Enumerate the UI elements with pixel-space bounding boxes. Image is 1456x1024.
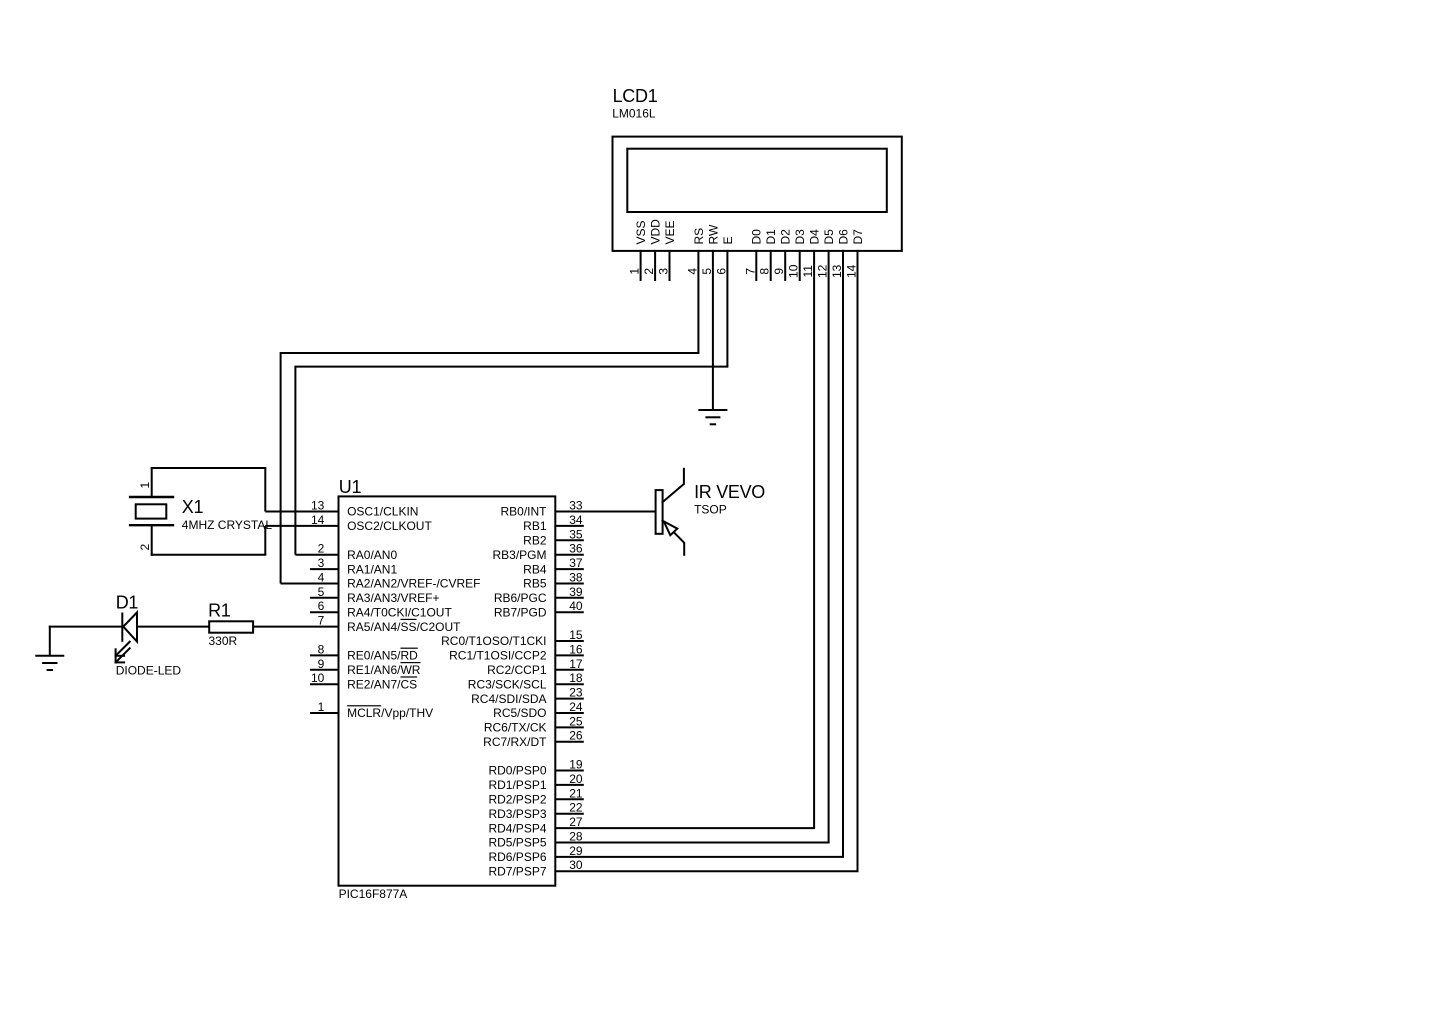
- svg-text:RA1/AN1: RA1/AN1: [347, 562, 397, 576]
- svg-text:25: 25: [569, 714, 583, 728]
- svg-text:29: 29: [569, 844, 583, 858]
- crystal X1 body: [136, 504, 167, 518]
- svg-text:RD7/PSP7: RD7/PSP7: [488, 864, 546, 878]
- transistor collector lead: [683, 468, 685, 485]
- wire RS into U1 pin 4 RA2: [281, 583, 339, 585]
- svg-text:8: 8: [758, 268, 772, 275]
- U1 pin 24 stub: [555, 712, 584, 714]
- D1 LED arrow 1: [115, 641, 131, 657]
- U1 pin 5 stub: [310, 597, 339, 599]
- svg-text:RB5: RB5: [523, 577, 547, 591]
- svg-text:RE1/AN6/WR: RE1/AN6/WR: [347, 663, 421, 677]
- wire LCD D4 pin 11 vertical down: [813, 250, 815, 828]
- svg-text:R1: R1: [208, 600, 231, 620]
- svg-text:OSC2/CLKOUT: OSC2/CLKOUT: [347, 519, 432, 533]
- svg-text:D4: D4: [808, 229, 822, 245]
- LCD1 pin 8 stub: [770, 250, 772, 281]
- svg-text:RE2/AN7/CS: RE2/AN7/CS: [347, 677, 417, 691]
- U1 pin 35 stub: [555, 539, 584, 541]
- resistor R1 body: [209, 621, 253, 632]
- svg-text:4: 4: [685, 268, 699, 275]
- svg-text:18: 18: [569, 671, 583, 685]
- svg-text:11: 11: [801, 265, 815, 278]
- svg-text:17: 17: [569, 657, 583, 671]
- wire LCD D7 pin 14 vertical down: [857, 250, 859, 871]
- svg-text:RB2: RB2: [523, 534, 547, 548]
- wire LCD D5 pin 12 vertical down: [828, 250, 830, 843]
- U1 pin 18 stub: [555, 683, 584, 685]
- svg-text:X1: X1: [182, 497, 204, 517]
- svg-text:RD2/PSP2: RD2/PSP2: [488, 793, 546, 807]
- ground symbol below LCD RW: [698, 410, 727, 424]
- wire ground to D1 cathode: [49, 626, 123, 628]
- wire X1 top horizontal: [151, 467, 267, 469]
- svg-text:19: 19: [569, 758, 583, 772]
- svg-text:RB1: RB1: [523, 519, 547, 533]
- wire X1 bottom horizontal: [151, 554, 267, 556]
- svg-text:RA3/AN3/VREF+: RA3/AN3/VREF+: [347, 591, 439, 605]
- svg-text:13: 13: [311, 499, 325, 513]
- U1 pin 34 stub: [555, 525, 584, 527]
- svg-text:14: 14: [845, 264, 859, 278]
- wire RS vertical down left side: [280, 352, 282, 584]
- U1 left pin numbers: [311, 499, 325, 715]
- svg-text:40: 40: [569, 599, 583, 613]
- svg-text:16: 16: [569, 642, 583, 656]
- svg-text:21: 21: [569, 786, 583, 800]
- svg-text:OSC1/CLKIN: OSC1/CLKIN: [347, 505, 418, 519]
- crystal X1 bottom plate: [129, 524, 174, 526]
- U1 left pin name labels: [347, 505, 480, 721]
- svg-text:26: 26: [569, 729, 583, 743]
- svg-text:RD5/PSP5: RD5/PSP5: [488, 836, 546, 850]
- U1 pin 15 stub: [555, 640, 584, 642]
- LCD1 pin 1 stub: [640, 250, 642, 281]
- svg-text:RC4/SDI/SDA: RC4/SDI/SDA: [471, 692, 546, 706]
- svg-text:RB6/PGC: RB6/PGC: [494, 591, 547, 605]
- diode D1 cathode bar: [121, 613, 123, 642]
- ground symbol left of D1: [35, 626, 64, 670]
- svg-text:RW: RW: [706, 224, 720, 244]
- svg-text:5: 5: [700, 268, 714, 275]
- wire X1 pin 1 up: [151, 467, 153, 497]
- svg-text:RD4/PSP4: RD4/PSP4: [488, 821, 546, 835]
- U1 pin 1 stub: [310, 712, 339, 714]
- svg-text:RB7/PGD: RB7/PGD: [494, 605, 547, 619]
- svg-text:D3: D3: [793, 229, 807, 245]
- LCD1 screen window: [627, 149, 887, 212]
- wire into U1 pin 14 OSC2: [265, 525, 338, 527]
- svg-text:3: 3: [318, 556, 325, 570]
- transistor collector diagonal: [662, 484, 685, 503]
- svg-text:2: 2: [642, 268, 656, 275]
- U1 pin 37 stub: [555, 568, 584, 570]
- svg-text:RC7/RX/DT: RC7/RX/DT: [483, 735, 547, 749]
- U1 pin 16 stub: [555, 654, 584, 656]
- LCD1 pin 2 stub: [654, 250, 656, 281]
- LCD1 pin 10 stub: [799, 250, 801, 281]
- U1 right pin numbers: [569, 499, 583, 873]
- U1 pin 8 stub: [310, 654, 339, 656]
- U1 pin 38 stub: [555, 583, 584, 585]
- svg-text:2: 2: [318, 542, 325, 556]
- svg-text:35: 35: [569, 527, 583, 541]
- microcontroller U1 body: [339, 496, 556, 885]
- U1 pin 19 stub: [555, 770, 584, 772]
- U1 pin 36 stub: [555, 554, 584, 556]
- svg-text:330R: 330R: [209, 634, 238, 648]
- svg-text:23: 23: [569, 686, 583, 700]
- U1 pin 17 stub: [555, 669, 584, 671]
- svg-text:RA5/AN4/SS/C2OUT: RA5/AN4/SS/C2OUT: [347, 620, 461, 634]
- wire LCD D6 pin 13 vertical down: [842, 250, 844, 857]
- svg-text:39: 39: [569, 585, 583, 599]
- wire RD7 horizontal into U1: [555, 870, 858, 872]
- wire E into U1 pin 2 RA0: [295, 554, 338, 556]
- svg-text:LM016L: LM016L: [612, 107, 656, 121]
- svg-text:D5: D5: [822, 229, 836, 245]
- svg-text:RC5/SDO: RC5/SDO: [493, 706, 546, 720]
- U1 pin 9 stub: [310, 669, 339, 671]
- svg-text:1: 1: [628, 268, 642, 275]
- svg-text:RD3/PSP3: RD3/PSP3: [488, 807, 546, 821]
- svg-text:33: 33: [569, 499, 583, 513]
- svg-text:15: 15: [569, 628, 583, 642]
- svg-text:MCLR/Vpp/THV: MCLR/Vpp/THV: [347, 706, 433, 720]
- svg-text:1: 1: [138, 482, 152, 489]
- U1 pin 3 stub: [310, 568, 339, 570]
- svg-text:RS: RS: [692, 228, 706, 245]
- svg-text:VDD: VDD: [649, 219, 663, 245]
- svg-text:34: 34: [569, 513, 583, 527]
- svg-text:RD0/PSP0: RD0/PSP0: [488, 764, 546, 778]
- svg-text:4: 4: [318, 571, 325, 585]
- svg-text:D7: D7: [851, 229, 865, 245]
- svg-text:7: 7: [318, 614, 325, 628]
- wire X1 pin 2 down: [151, 525, 153, 556]
- svg-text:PIC16F877A: PIC16F877A: [339, 887, 408, 901]
- svg-text:9: 9: [318, 657, 325, 671]
- svg-text:6: 6: [318, 599, 325, 613]
- svg-text:RA0/AN0: RA0/AN0: [347, 548, 397, 562]
- svg-text:RA4/T0CKI/C1OUT: RA4/T0CKI/C1OUT: [347, 605, 452, 619]
- svg-text:RC2/CCP1: RC2/CCP1: [487, 663, 547, 677]
- svg-text:6: 6: [714, 268, 728, 275]
- diode D1 triangle: [123, 612, 137, 641]
- U1 pin 23 stub: [555, 698, 584, 700]
- svg-text:24: 24: [569, 700, 583, 714]
- wire LCD RW pin 5 to ground: [712, 250, 714, 410]
- svg-text:RC3/SCK/SCL: RC3/SCK/SCL: [468, 677, 547, 691]
- LCD1 pin 7 stub: [755, 250, 757, 281]
- svg-text:2: 2: [138, 544, 152, 551]
- svg-text:TSOP: TSOP: [694, 503, 727, 517]
- transistor emitter lead: [683, 543, 685, 556]
- wire into U1 pin 13 OSC1: [265, 511, 338, 513]
- svg-text:VEE: VEE: [663, 220, 677, 244]
- wire RS horizontal to left: [281, 352, 700, 354]
- wire down to OSC1: [264, 468, 266, 512]
- svg-text:U1: U1: [339, 477, 362, 497]
- svg-text:RC0/T1OSO/T1CKI: RC0/T1OSO/T1CKI: [441, 634, 546, 648]
- svg-text:RC6/TX/CK: RC6/TX/CK: [484, 721, 547, 735]
- wire RD4 horizontal into U1: [555, 827, 815, 829]
- svg-text:9: 9: [772, 268, 786, 275]
- LCD1 pin name labels VSS VDD VEE RS RW E D0-D7: [634, 219, 865, 245]
- svg-text:36: 36: [569, 542, 583, 556]
- svg-text:D6: D6: [836, 229, 850, 245]
- svg-text:5: 5: [318, 585, 325, 599]
- wire E horizontal to left: [295, 366, 728, 368]
- svg-text:VSS: VSS: [634, 220, 648, 244]
- U1 pin 26 stub: [555, 741, 584, 743]
- D1 LED arrow 2: [115, 648, 131, 664]
- U1 right pin name labels: [441, 505, 547, 879]
- wire LCD RS pin 4 vertical: [697, 250, 699, 353]
- svg-text:28: 28: [569, 830, 583, 844]
- svg-text:E: E: [721, 236, 735, 244]
- svg-text:13: 13: [830, 264, 844, 278]
- transistor emitter diagonal: [662, 520, 685, 543]
- LCD1 pin numbers 1-14: [628, 264, 859, 278]
- svg-text:22: 22: [569, 801, 583, 815]
- svg-text:RB3/PGM: RB3/PGM: [492, 548, 546, 562]
- U1 pin 20 stub: [555, 784, 584, 786]
- wire RD6 horizontal into U1: [555, 856, 844, 858]
- svg-text:4MHZ CRYSTAL: 4MHZ CRYSTAL: [182, 518, 273, 532]
- U1 pin 22 stub: [555, 813, 584, 815]
- svg-text:27: 27: [569, 815, 583, 829]
- svg-text:30: 30: [569, 858, 583, 872]
- svg-text:D2: D2: [779, 229, 793, 245]
- svg-text:RB4: RB4: [523, 562, 547, 576]
- wire R1 to U1 pin 7 RA5: [253, 626, 338, 628]
- svg-text:14: 14: [311, 513, 325, 527]
- svg-text:10: 10: [311, 671, 325, 685]
- transistor IR VEVO base bar: [656, 490, 663, 534]
- svg-text:DIODE-LED: DIODE-LED: [116, 664, 182, 678]
- svg-text:RA2/AN2/VREF-/CVREF: RA2/AN2/VREF-/CVREF: [347, 577, 480, 591]
- svg-text:RB0/INT: RB0/INT: [500, 505, 547, 519]
- svg-text:IR VEVO: IR VEVO: [694, 482, 765, 502]
- wire LCD E pin 6 vertical: [726, 250, 728, 367]
- svg-text:RE0/AN5/RD: RE0/AN5/RD: [347, 649, 418, 663]
- svg-text:D1: D1: [116, 593, 139, 613]
- svg-text:D1: D1: [764, 229, 778, 245]
- wire E vertical down left side: [294, 366, 296, 555]
- svg-text:RD1/PSP1: RD1/PSP1: [488, 778, 546, 792]
- svg-text:RD6/PSP6: RD6/PSP6: [488, 850, 546, 864]
- transistor emitter arrowhead: [664, 521, 678, 535]
- U1 pin 39 stub: [555, 597, 584, 599]
- svg-text:RC1/T1OSI/CCP2: RC1/T1OSI/CCP2: [449, 649, 547, 663]
- svg-text:7: 7: [743, 268, 757, 275]
- svg-text:8: 8: [318, 642, 325, 656]
- wire D1 anode to R1: [137, 626, 209, 628]
- svg-text:37: 37: [569, 556, 583, 570]
- U1 pin 6 stub: [310, 611, 339, 613]
- svg-text:3: 3: [657, 268, 671, 275]
- U1 pin 25 stub: [555, 726, 584, 728]
- LCD1 pin 9 stub: [784, 250, 786, 281]
- crystal X1 top plate: [129, 496, 174, 498]
- svg-text:10: 10: [787, 264, 801, 278]
- svg-text:1: 1: [318, 700, 325, 714]
- LCD1 pin 3 stub: [669, 250, 671, 281]
- svg-text:D0: D0: [750, 229, 764, 245]
- U1 pin 21 stub: [555, 798, 584, 800]
- svg-text:LCD1: LCD1: [613, 86, 658, 106]
- svg-text:12: 12: [816, 264, 830, 278]
- svg-text:20: 20: [569, 772, 583, 786]
- wire U1 pin 33 RB0 to transistor base: [555, 511, 655, 513]
- LCD display LCD1 body: [613, 137, 902, 251]
- wire up to OSC2 row: [264, 526, 266, 555]
- wire RD5 horizontal into U1: [555, 842, 829, 844]
- svg-text:38: 38: [569, 571, 583, 585]
- U1 pin 40 stub: [555, 611, 584, 613]
- U1 pin 10 stub: [310, 683, 339, 685]
